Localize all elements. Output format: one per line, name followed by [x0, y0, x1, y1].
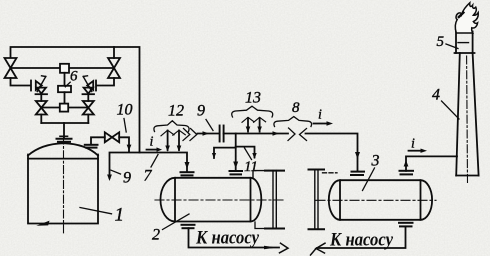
svg-text:3: 3	[371, 153, 380, 170]
svg-text:К насосу: К насосу	[329, 230, 393, 251]
svg-text:12: 12	[168, 103, 184, 120]
svg-text:i: i	[150, 135, 154, 150]
svg-text:К насосу: К насосу	[195, 228, 259, 249]
svg-text:5: 5	[437, 34, 445, 50]
svg-text:2: 2	[152, 227, 160, 244]
svg-text:1: 1	[115, 205, 125, 226]
svg-text:11: 11	[244, 159, 258, 175]
svg-text:9: 9	[197, 103, 205, 120]
svg-text:i: i	[318, 108, 322, 123]
svg-text:8: 8	[292, 100, 300, 116]
svg-text:13: 13	[245, 90, 261, 107]
svg-text:4: 4	[432, 87, 440, 104]
svg-text:6: 6	[70, 69, 78, 85]
svg-text:10: 10	[117, 102, 133, 119]
svg-text:i: i	[411, 137, 415, 152]
svg-text:7: 7	[144, 168, 153, 185]
svg-text:9: 9	[123, 170, 131, 187]
